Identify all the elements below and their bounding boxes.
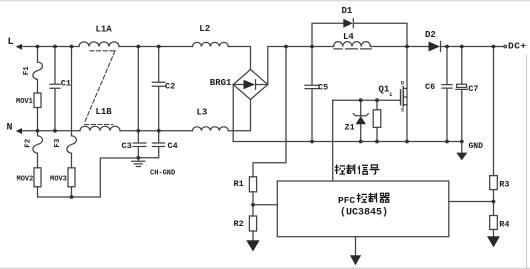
svg-text:MOV2: MOV2 [17, 175, 34, 183]
svg-text:L: L [8, 37, 14, 48]
svg-text:R1: R1 [234, 179, 244, 189]
svg-text:BRG1: BRG1 [210, 78, 232, 88]
svg-text:C6: C6 [425, 82, 435, 92]
svg-text:F1: F1 [23, 66, 31, 76]
svg-text:N: N [7, 123, 13, 134]
svg-text:S: S [401, 108, 404, 114]
svg-text:C7: C7 [468, 84, 478, 94]
svg-text:L4: L4 [343, 32, 354, 42]
svg-text:D1: D1 [342, 6, 353, 16]
svg-text:C2: C2 [165, 81, 175, 91]
svg-text:F3: F3 [54, 138, 62, 148]
svg-text:C5: C5 [318, 83, 328, 93]
svg-text:Z1: Z1 [345, 123, 355, 133]
svg-text:MOV3: MOV3 [50, 175, 67, 183]
svg-text:DC+: DC+ [508, 40, 527, 51]
svg-text:D: D [401, 81, 404, 87]
svg-text:D2: D2 [425, 30, 436, 40]
svg-text:1: 1 [389, 91, 393, 98]
svg-text:L3: L3 [197, 108, 208, 118]
svg-text:F2: F2 [25, 138, 33, 148]
svg-text:C3: C3 [122, 141, 132, 151]
svg-text:PFC: PFC [338, 195, 355, 206]
svg-text:L1B: L1B [96, 107, 113, 117]
svg-text:R3: R3 [499, 179, 509, 189]
svg-text:R2: R2 [234, 219, 244, 229]
svg-text:GND: GND [469, 142, 484, 151]
svg-text:R4: R4 [499, 219, 509, 229]
svg-text:L1A: L1A [96, 25, 113, 35]
svg-text:L2: L2 [199, 24, 210, 34]
svg-text:C1: C1 [61, 79, 71, 89]
svg-text:C4: C4 [168, 141, 178, 151]
svg-text:(UC3845): (UC3845) [340, 207, 388, 219]
svg-text:MOV1: MOV1 [16, 98, 33, 106]
svg-text:CH-GND: CH-GND [150, 169, 175, 177]
